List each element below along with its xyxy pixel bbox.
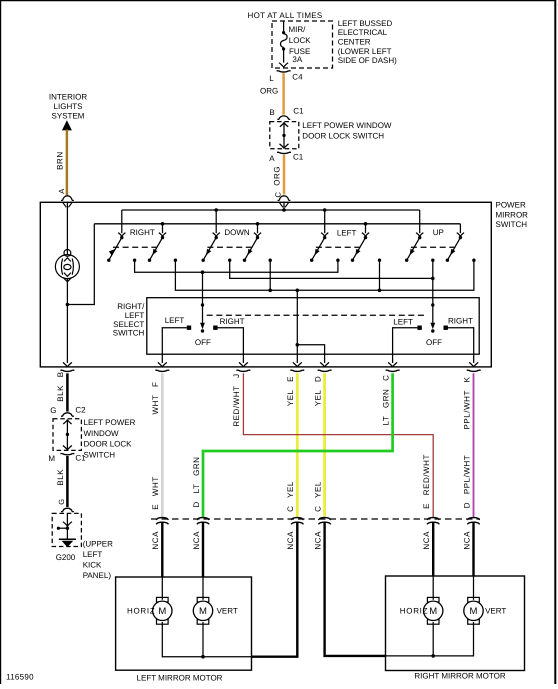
connector terminal E (290, 370, 304, 371)
common contact node b1 (DOWN center) (228, 259, 231, 262)
svg-text:KICK: KICK (83, 561, 102, 570)
svg-text:A: A (57, 188, 66, 194)
right/left select switch outline box (147, 298, 479, 355)
svg-text:E RED/WHT: E RED/WHT (422, 454, 431, 509)
fuse MIR/LOCK FUSE 3A (283, 22, 285, 32)
internal arrow up (63, 420, 71, 424)
svg-text:LEFT BUSSED: LEFT BUSSED (338, 19, 393, 28)
wire NCA right motor C (to motor common) (325, 522, 386, 656)
connector C1 pin B wire-end arc (277, 116, 290, 119)
switch DOWN left pole feed stub (215, 210, 217, 233)
switch LEFT right pole feed stub (365, 224, 367, 233)
connector terminal F (155, 370, 169, 371)
connector terminal J (236, 370, 250, 371)
wire left motor common to pin C (203, 656, 252, 658)
connector terminal K (467, 370, 481, 371)
wire RIGHT contact to output K (446, 328, 474, 363)
common contact node d2 (472, 259, 475, 262)
svg-text:VERT: VERT (217, 607, 238, 616)
feed bus (top, from pin C) for switch left poles (122, 209, 420, 211)
mechanical link LEFT switch (dashed) (316, 246, 361, 248)
svg-text:RIGHT MIRROR MOTOR: RIGHT MIRROR MOTOR (414, 672, 505, 681)
wire branch to output D (297, 345, 324, 363)
ground splice dashed box (52, 513, 81, 546)
svg-text:LEFT: LEFT (125, 311, 145, 320)
RIGHT left pole pivot (120, 236, 123, 239)
wire right HORIZ motor to common (432, 622, 434, 656)
svg-text:ORG: ORG (273, 166, 282, 186)
svg-text:BRN: BRN (55, 151, 64, 170)
junction: LEFT right pole feed on second bus (364, 222, 368, 226)
connector C2 pin G wire-end arc (61, 413, 74, 416)
power mirror switch pin C entry connector (278, 196, 291, 201)
wire LT GRN output C to left mirror motor pin D (203, 373, 393, 517)
junction E/D split (296, 343, 300, 347)
motor left HORIZ (M symbol) (157, 597, 169, 602)
wire LEFT contact to output C (393, 328, 418, 363)
svg-text:DOWN: DOWN (224, 228, 250, 237)
wire node b2 drop (269, 260, 271, 290)
junction: DOWN left pole feed on top bus (214, 208, 218, 212)
wire net RIGHT-center to LEFT-center (bus y272) (135, 260, 338, 272)
wire BRN interior lights to power mirror switch pin A (66, 130, 69, 196)
junction: DOWN right pole feed on second bus (256, 222, 260, 226)
connector terminal B (60, 370, 74, 371)
svg-text:B: B (269, 108, 274, 117)
junction: tap to left select blade (201, 270, 205, 274)
wire PPL/WHT output K to right mirror motor pin D (473, 373, 475, 517)
switch DOWN right pole throw contact (243, 259, 246, 262)
junction: UP-center vertical joins bus y278 (431, 277, 435, 281)
switch LEFT left pole feed stub (324, 210, 326, 233)
svg-text:NCA: NCA (192, 531, 201, 550)
connector left motor pin D (197, 518, 209, 520)
svg-text:VERT: VERT (485, 607, 506, 616)
wire lamp node to right-side feed bus (67, 224, 94, 305)
connector C4 pin L (in-line connector symbol) (277, 71, 291, 72)
right select RIGHT contact pad (444, 326, 448, 330)
junction c2 on bus y290 (378, 289, 382, 293)
mechanical link DOWN switch (dashed) (207, 246, 253, 248)
internal arrow down to splice (63, 522, 72, 527)
wire right VERT motor to common (433, 622, 473, 656)
wire ORG from fuse C4 to door lock switch C1 pin B (282, 73, 285, 114)
svg-text:ELECTRICAL: ELECTRICAL (338, 28, 388, 37)
svg-text:NCA: NCA (462, 531, 471, 550)
connector C1 pin A (in-line connector symbol) (277, 152, 291, 153)
svg-text:BLK B: BLK B (56, 371, 65, 401)
wire ORG from door lock switch pin A to power mirror switch pin C (283, 155, 286, 195)
internal arrow down at pin A (280, 144, 289, 149)
switch RIGHT right pole pivot contact (161, 236, 164, 239)
splice stub with node (58, 527, 67, 529)
wire left VERT motor to common (202, 622, 204, 657)
svg-text:LEFT POWER WINDOW: LEFT POWER WINDOW (302, 121, 392, 130)
common contact node c1 (LEFT center) (336, 259, 339, 262)
switch DOWN right pole blade with arrow (245, 238, 258, 261)
wire YEL output E to left mirror motor pin C (296, 373, 299, 517)
motor right HORIZ (M symbol) (427, 597, 439, 602)
svg-text:DOOR LOCK: DOOR LOCK (84, 440, 133, 449)
switch UP right pole pivot contact (459, 236, 462, 239)
wire LEFT contact to output F (162, 328, 187, 363)
common contact node d1 (UP center) (431, 259, 434, 262)
svg-text:C2: C2 (75, 406, 86, 415)
svg-text:SWITCH: SWITCH (496, 220, 528, 229)
svg-text:RIGHT: RIGHT (448, 317, 473, 326)
svg-text:3A: 3A (292, 55, 302, 64)
svg-text:LEFT MIRROR MOTOR: LEFT MIRROR MOTOR (137, 674, 223, 683)
common contact node c2 (378, 259, 381, 262)
wire BLK output B to door lock switch C2 pin G (66, 373, 69, 411)
svg-text:LEFT POWER: LEFT POWER (84, 418, 136, 427)
connector right motor pin C (318, 518, 330, 520)
RIGHT left pole blade (109, 238, 122, 261)
svg-text:G: G (50, 406, 56, 415)
wire RIGHT contact to output J (218, 328, 244, 363)
wire into right HORIZ motor (432, 576, 434, 600)
junction: RIGHT right pole feed on second bus (161, 222, 165, 226)
svg-text:CENTER: CENTER (338, 37, 371, 46)
mechanical link UP switch (dashed) (411, 246, 456, 248)
svg-text:PPL/WHT K: PPL/WHT K (462, 376, 471, 429)
switch LEFT left pole pivot contact (323, 236, 326, 239)
wire into left HORIZ motor (161, 577, 163, 600)
wire WHT output F to left mirror motor pin E (161, 373, 164, 517)
junction left motor common (201, 655, 205, 659)
switch DOWN left pole throw contact (202, 259, 205, 262)
svg-text:LEFT: LEFT (393, 318, 413, 327)
svg-text:G: G (57, 498, 66, 504)
ground connector wire-end arc (61, 508, 74, 511)
svg-text:SIDE OF DASH): SIDE OF DASH) (338, 56, 397, 65)
wire NCA left motor D (202, 522, 204, 577)
junction b2 on bus y290 (268, 289, 272, 293)
connector left motor pin E (156, 518, 168, 520)
wire left HORIZ motor to common (162, 622, 203, 657)
svg-text:C YEL: C YEL (313, 481, 322, 512)
svg-text:WINDOW: WINDOW (84, 429, 120, 438)
output F exit arrow at box edge (158, 362, 167, 367)
wire tap down to left select switch blade (202, 272, 204, 303)
right select blade (OFF position) (432, 305, 434, 327)
common contact node b2 (269, 259, 272, 262)
common contact node a1 (RIGHT center) (133, 259, 136, 262)
svg-text:NCA: NCA (313, 531, 322, 550)
wire BLK door lock switch M to ground G200 (66, 456, 69, 507)
switch LEFT right pole throw contact (351, 259, 354, 262)
motor right VERT (M symbol) (468, 597, 480, 602)
output K exit arrow at box edge (469, 362, 478, 367)
splice junction dot (66, 527, 69, 530)
connector terminal D (318, 370, 332, 371)
fuse exit arrow into connector C4 (279, 63, 288, 67)
svg-text:PANEL): PANEL) (83, 571, 112, 580)
junction right motor common (431, 654, 435, 658)
right mirror motor outline box (386, 576, 525, 671)
svg-text:INTERIOR: INTERIOR (49, 93, 87, 102)
svg-text:C YEL: C YEL (286, 481, 295, 512)
door lock switch internal wire B to A (283, 122, 285, 148)
connector left motor pin C (291, 518, 303, 520)
left mirror motor outline box (116, 577, 252, 670)
mechanical link RIGHT switch (dashed) (113, 246, 158, 248)
svg-text:NCA: NCA (286, 531, 295, 550)
switch DOWN left pole pivot contact (215, 236, 218, 239)
svg-text:RIGHT: RIGHT (130, 228, 155, 237)
svg-text:D PPL/WHT: D PPL/WHT (462, 455, 471, 509)
switch DOWN left pole blade with arrow (203, 238, 216, 261)
wire yellow tap to outputs E and D (296, 290, 298, 363)
wire NCA left motor C (to motor common) (252, 522, 298, 657)
svg-text:G200: G200 (56, 553, 76, 562)
svg-text:OFF: OFF (195, 338, 211, 347)
svg-text:D LT GRN: D LT GRN (192, 457, 201, 508)
switch LEFT left pole blade with arrow (312, 238, 325, 261)
svg-text:LOCK: LOCK (289, 36, 311, 45)
svg-text:M: M (470, 606, 478, 617)
wire pin A to illumination lamp (66, 202, 68, 255)
left select RIGHT contact pad (213, 326, 217, 330)
svg-text:UP: UP (433, 228, 444, 237)
feed bus (second) for switch right poles (94, 223, 460, 225)
internal arrow up at pin B (280, 123, 288, 127)
output D exit arrow at box edge (320, 362, 329, 367)
svg-text:LEFT: LEFT (83, 550, 103, 559)
svg-text:C1: C1 (293, 106, 304, 115)
connector right motor pin E (427, 518, 439, 520)
svg-text:MIR/: MIR/ (289, 25, 307, 34)
svg-text:L: L (269, 74, 274, 83)
svg-text:SYSTEM: SYSTEM (52, 112, 85, 121)
connector C1 pin M (60, 454, 74, 455)
svg-text:E WHT: E WHT (151, 476, 160, 510)
svg-text:LEFT: LEFT (337, 228, 357, 237)
svg-text:MIRROR: MIRROR (496, 210, 529, 219)
svg-text:(UPPER: (UPPER (83, 540, 113, 549)
junction: yellow output tap on bus y290 (296, 289, 300, 293)
svg-text:C1: C1 (75, 454, 86, 463)
switch UP left pole feed stub (419, 210, 421, 233)
internal junction dot (282, 134, 285, 137)
svg-text:M: M (158, 606, 166, 617)
motor left VERT (M symbol) (197, 597, 209, 602)
svg-text:116590: 116590 (6, 673, 34, 682)
switch LEFT right pole pivot contact (364, 236, 367, 239)
internal junction dot (66, 433, 69, 436)
switch DOWN right pole pivot contact (256, 236, 259, 239)
wire UP-center down to right select blade (432, 260, 434, 303)
svg-text:(LOWER LEFT: (LOWER LEFT (338, 47, 392, 56)
svg-text:LEFT: LEFT (165, 316, 185, 325)
svg-text:M: M (429, 606, 437, 617)
svg-text:BLK: BLK (56, 469, 65, 486)
wire YEL output D to right mirror motor pin C (323, 373, 326, 517)
svg-text:OFF: OFF (426, 338, 442, 347)
junction: LEFT left pole feed on top bus (323, 208, 327, 212)
mirror motor connector boundary (dashed) (151, 518, 480, 520)
switch UP left pole blade with arrow (407, 238, 420, 261)
svg-text:A: A (269, 154, 275, 163)
right select LEFT contact pad (417, 326, 421, 330)
switch UP left pole pivot contact (418, 236, 421, 239)
svg-text:HORIZ: HORIZ (127, 607, 155, 616)
left select LEFT contact pad (187, 326, 191, 330)
svg-text:NCA: NCA (422, 531, 431, 550)
svg-text:NCA: NCA (151, 531, 160, 550)
svg-text:ORG: ORG (260, 86, 278, 95)
wire lamp to ground-side node (66, 279, 68, 305)
wire stub C entry to feed bus (283, 202, 285, 210)
wire NCA left motor E (161, 522, 163, 577)
svg-text:SWITCH: SWITCH (84, 450, 116, 459)
switch LEFT right pole blade with arrow (353, 238, 366, 261)
right select OFF contact (431, 329, 434, 332)
output B exit arrow at box edge (63, 362, 72, 367)
svg-text:C1: C1 (293, 153, 304, 162)
svg-text:LIGHTS: LIGHTS (54, 102, 83, 111)
svg-text:HORIZ: HORIZ (400, 607, 428, 616)
wire NCA right motor D (472, 522, 474, 577)
LEFT POWER WINDOW DOOR LOCK SWITCH (lower, dashed box) (53, 419, 81, 451)
power mirror switch outline box (40, 202, 491, 367)
connector terminal C (386, 370, 400, 371)
wire right motor common to pin C (386, 655, 434, 657)
svg-text:M: M (48, 454, 55, 463)
svg-text:RIGHT/: RIGHT/ (117, 302, 145, 311)
internal arrow down (63, 446, 72, 451)
switch UP right pole feed stub (459, 224, 461, 233)
svg-text:C4: C4 (292, 73, 303, 82)
svg-text:RIGHT: RIGHT (220, 317, 245, 326)
top bus corner to RIGHT left pole (121, 210, 123, 233)
wire into right VERT motor (473, 576, 475, 600)
switch UP right pole throw contact (446, 259, 449, 262)
switch UP left pole throw contact (405, 259, 408, 262)
svg-text:SELECT: SELECT (113, 320, 144, 329)
svg-text:DOOR LOCK SWITCH: DOOR LOCK SWITCH (302, 131, 384, 140)
right select blade pivot (431, 303, 434, 306)
off-page arrow up to interior lights system (62, 120, 72, 130)
output J exit arrow at box edge (239, 362, 248, 367)
junction node: ORG feed joins top bus (282, 208, 286, 212)
internal wire to ground (66, 514, 68, 539)
ground symbol G200 (59, 538, 76, 540)
svg-text:POWER: POWER (496, 201, 526, 210)
switch RIGHT right pole feed stub (162, 224, 164, 233)
wire common bus y290 linking alternate contacts (175, 260, 474, 290)
left select blade (OFF position) (202, 305, 204, 327)
svg-text:YEL E: YEL E (286, 376, 295, 406)
output C exit arrow at box edge (388, 362, 397, 367)
wire NCA right motor E (432, 522, 434, 577)
switch UP right pole blade with arrow (447, 238, 460, 261)
door lock switch internal wire G to M (66, 419, 68, 450)
LEFT POWER WINDOW DOOR LOCK SWITCH (upper, dashed box, pass-through) (270, 122, 299, 149)
svg-text:M: M (199, 606, 207, 617)
switch LEFT left pole throw contact (310, 259, 313, 262)
left select OFF contact (201, 329, 204, 332)
switch DOWN right pole feed stub (257, 224, 259, 233)
output E exit arrow at box edge (293, 362, 302, 367)
switch RIGHT right pole blade with arrow (150, 238, 163, 261)
svg-text:SWITCH: SWITCH (113, 329, 145, 338)
switch RIGHT right pole throw contact (148, 259, 151, 262)
wire into left VERT motor (202, 577, 204, 600)
junction node lamp/output B (66, 303, 70, 307)
svg-text:WHT F: WHT F (151, 382, 160, 415)
illumination lamp (bulb symbol) (55, 250, 79, 282)
connector right motor pin D (467, 518, 479, 520)
common contact node a2 (174, 259, 177, 262)
left select blade pivot (201, 303, 204, 306)
wire RED/WHT output J to right mirror motor pin E (243, 373, 433, 517)
svg-text:YEL D: YEL D (313, 376, 322, 407)
fuse block: LEFT BUSSED ELECTRICAL CENTER (dashed box) (272, 21, 333, 68)
wire lamp node to output B (66, 305, 68, 364)
svg-text:LT GRN C: LT GRN C (381, 375, 390, 426)
power mirror switch pin A entry connector (61, 196, 74, 201)
svg-text:HOT AT ALL TIMES: HOT AT ALL TIMES (248, 11, 323, 20)
select switch mechanical link (dashed) (207, 314, 427, 316)
wire net DOWN-center to UP-center (bus y278) (230, 260, 433, 278)
svg-text:RED/WHT J: RED/WHT J (232, 373, 241, 426)
wire node c2 drop (379, 260, 381, 290)
